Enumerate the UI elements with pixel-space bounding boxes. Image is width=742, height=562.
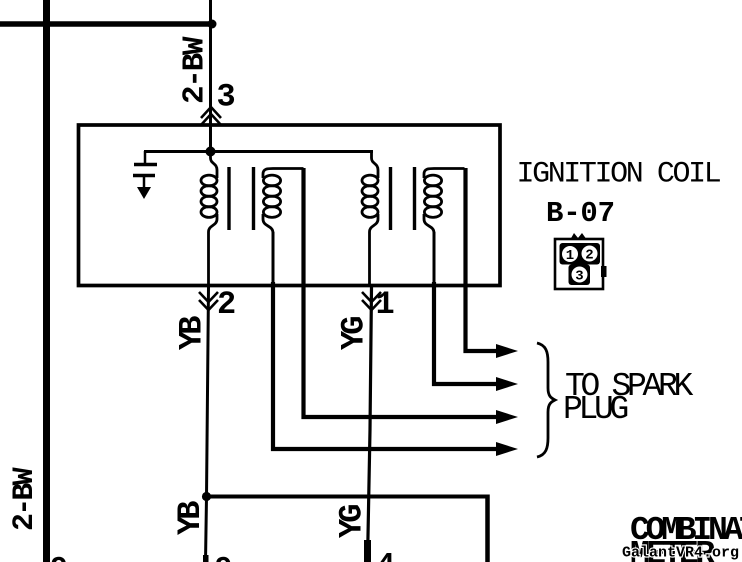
svg-text:YG: YG xyxy=(336,317,373,350)
svg-text:2-BW: 2-BW xyxy=(8,467,42,531)
svg-text:YB: YB xyxy=(174,316,211,350)
svg-text:PLUG: PLUG xyxy=(563,391,628,428)
svg-text:YB: YB xyxy=(172,501,209,535)
svg-text:YG: YG xyxy=(334,505,371,538)
svg-text:1: 1 xyxy=(566,248,574,264)
svg-text:9: 9 xyxy=(215,553,233,562)
svg-text:1: 1 xyxy=(376,286,395,323)
svg-text:GalantVR4.org: GalantVR4.org xyxy=(622,545,739,562)
svg-text:IGNITION COIL: IGNITION COIL xyxy=(517,158,721,192)
svg-text:B-07: B-07 xyxy=(546,197,615,230)
svg-text:9: 9 xyxy=(50,553,68,562)
svg-text:2-BW: 2-BW xyxy=(178,36,213,104)
svg-text:3: 3 xyxy=(575,269,583,285)
svg-text:2: 2 xyxy=(217,286,236,323)
svg-text:4: 4 xyxy=(377,549,395,562)
svg-text:2: 2 xyxy=(585,248,593,264)
svg-text:3: 3 xyxy=(217,79,236,116)
